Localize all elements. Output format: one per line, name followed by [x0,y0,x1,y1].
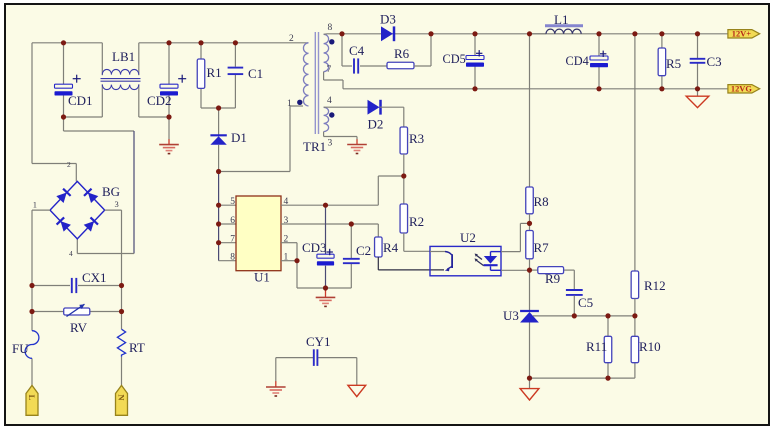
svg-text:2: 2 [67,160,71,169]
svg-text:12V+: 12V+ [732,30,751,39]
svg-text:U2: U2 [460,230,476,245]
svg-text:3: 3 [328,139,333,149]
svg-text:R1: R1 [207,65,222,80]
svg-text:1: 1 [284,253,289,263]
svg-text:C4: C4 [349,43,365,58]
svg-text:C1: C1 [248,66,263,81]
svg-text:C5: C5 [578,295,593,310]
svg-text:CX1: CX1 [82,270,107,285]
svg-text:CD5: CD5 [443,52,466,66]
svg-text:CD3: CD3 [302,240,327,255]
svg-text:4: 4 [284,197,289,207]
svg-text:CD4: CD4 [566,54,589,68]
svg-text:7: 7 [327,65,332,75]
svg-text:LB1: LB1 [112,49,135,64]
svg-text:CD2: CD2 [147,93,172,108]
svg-text:RT: RT [129,340,145,355]
svg-text:4: 4 [327,96,332,106]
svg-text:2: 2 [289,34,294,44]
svg-text:1: 1 [33,200,37,210]
svg-text:R5: R5 [666,56,681,71]
svg-text:1: 1 [287,99,292,109]
svg-text:R7: R7 [534,240,550,255]
svg-text:2: 2 [284,235,289,245]
svg-text:5: 5 [230,197,235,207]
svg-text:U3: U3 [503,308,519,323]
svg-text:D2: D2 [368,117,384,132]
svg-text:R10: R10 [639,339,661,354]
svg-text:3: 3 [115,199,119,209]
svg-text:4: 4 [69,249,73,258]
svg-text:RV: RV [70,320,88,335]
svg-text:R6: R6 [394,46,410,61]
svg-text:L1: L1 [554,12,568,27]
svg-text:D1: D1 [231,130,247,145]
svg-text:BG: BG [102,184,120,199]
svg-text:CD1: CD1 [68,93,93,108]
svg-text:3: 3 [284,216,289,226]
svg-text:L: L [27,395,37,401]
svg-text:FU: FU [12,341,29,356]
svg-text:6: 6 [230,216,235,226]
svg-text:D3: D3 [380,12,396,27]
svg-text:R4: R4 [383,240,399,255]
svg-text:R3: R3 [409,131,424,146]
svg-text:R9: R9 [545,271,560,286]
svg-text:12VG: 12VG [731,85,752,94]
svg-text:TR1: TR1 [303,139,326,154]
svg-text:8: 8 [328,23,333,33]
svg-text:R8: R8 [534,194,549,209]
svg-text:C2: C2 [356,243,371,258]
svg-text:N: N [117,394,127,401]
svg-text:7: 7 [230,235,235,245]
svg-text:C3: C3 [707,54,722,69]
svg-text:8: 8 [230,253,235,263]
svg-text:R11: R11 [586,339,607,354]
svg-text:R2: R2 [409,214,424,229]
svg-text:U1: U1 [254,270,270,285]
svg-text:CY1: CY1 [306,334,331,349]
svg-text:R12: R12 [644,278,666,293]
